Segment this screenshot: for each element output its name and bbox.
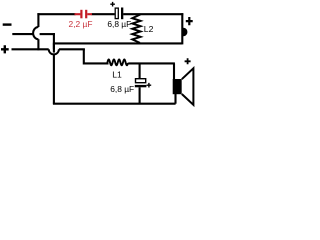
svg-text:6,8 µF: 6,8 µF [110, 84, 134, 94]
svg-text:L1: L1 [112, 69, 122, 79]
svg-text:2,2 µF: 2,2 µF [69, 19, 93, 29]
svg-text:L2: L2 [144, 24, 154, 34]
svg-text:6,8 µF: 6,8 µF [107, 19, 131, 29]
